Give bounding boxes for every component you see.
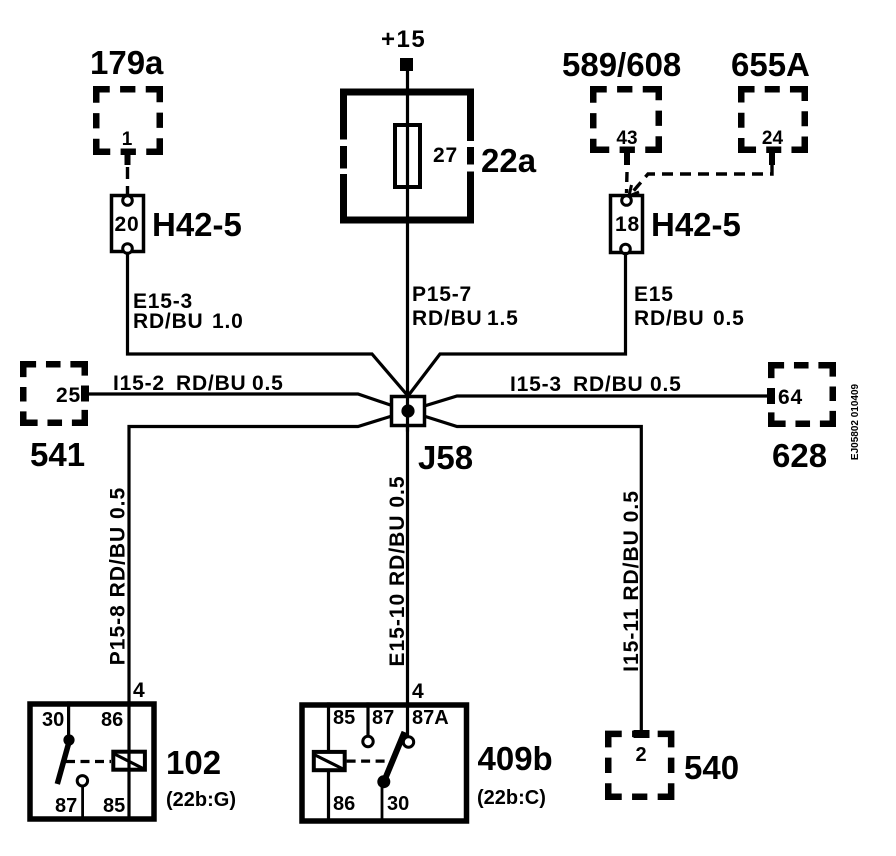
pin 64 tick [767, 388, 775, 404]
connector 628 dashed box [771, 365, 833, 424]
svg-text:87A: 87A [412, 707, 449, 729]
+15 terminal square [400, 58, 413, 71]
fuse 27 symbol [395, 125, 420, 187]
svg-text:P15-7: P15-7 [412, 283, 472, 306]
relay 102 coil wire 86-85 [127, 703, 130, 819]
svg-text:1: 1 [122, 129, 133, 150]
dashed wire 24 to H42-5 [630, 165, 772, 195]
pin 43 tick [624, 152, 630, 165]
relay 409b coil [314, 752, 345, 770]
svg-text:27: 27 [433, 144, 458, 167]
relay 102 coil [113, 752, 145, 770]
svg-text:541: 541 [30, 436, 85, 473]
fuse box 22a edge gaps [336, 140, 478, 175]
pin 25 tick [81, 386, 89, 402]
svg-text:628: 628 [772, 437, 827, 474]
svg-text:179a: 179a [90, 44, 164, 81]
connector 589/608 dashed box [593, 89, 659, 150]
junction J58 square [392, 397, 425, 426]
svg-text:1.0: 1.0 [212, 310, 244, 333]
svg-text:43: 43 [616, 128, 637, 149]
arrowhead at pin 18 [629, 185, 639, 196]
svg-text:0.5: 0.5 [713, 307, 745, 330]
relay 102 box [30, 704, 154, 819]
svg-text:409b: 409b [478, 740, 553, 777]
svg-text:RD/BU: RD/BU [573, 373, 644, 396]
svg-text:64: 64 [778, 386, 803, 409]
svg-text:(22b:C): (22b:C) [477, 787, 546, 809]
connector 541 dashed box [23, 364, 85, 423]
svg-text:RD/BU: RD/BU [412, 307, 483, 330]
svg-text:4: 4 [133, 679, 145, 702]
svg-text:540: 540 [684, 749, 739, 786]
svg-text:H42-5: H42-5 [651, 206, 741, 243]
pin 1 tick [125, 152, 131, 165]
pin 20 bottom circle [123, 244, 133, 254]
wire I15-11 [408, 411, 641, 734]
svg-text:87: 87 [55, 795, 77, 817]
svg-text:RD/BU: RD/BU [634, 307, 705, 330]
junction J58 vertical wire through square [406, 392, 409, 430]
wire P15-8 [129, 411, 408, 702]
pin 18 top circle [622, 196, 632, 206]
svg-text:30: 30 [42, 709, 64, 731]
pin 20 top circle [123, 196, 133, 206]
dashed wire 179a to H42-5 [126, 167, 129, 196]
svg-text:RD/BU: RD/BU [133, 310, 204, 333]
wire E15-10 [406, 411, 409, 737]
svg-text:E15-10 RD/BU 0.5: E15-10 RD/BU 0.5 [386, 475, 409, 666]
svg-text:87: 87 [372, 707, 394, 729]
wire E15-3 [128, 254, 409, 397]
svg-text:30: 30 [387, 793, 409, 815]
svg-text:20: 20 [115, 213, 140, 236]
wire E15 [408, 254, 626, 397]
relay 409b box [302, 705, 467, 821]
relay 102 pin 87 contact circle [77, 776, 87, 786]
svg-text:18: 18 [615, 213, 640, 236]
junction J58 dot [401, 404, 414, 417]
relay 409b coil link dashed [347, 759, 389, 762]
connector 655A dashed box [741, 89, 805, 150]
relay 102 switch pivot dot [63, 734, 74, 745]
connector H42-5 pin 18 box [611, 196, 643, 253]
svg-text:I15-2: I15-2 [113, 372, 165, 395]
svg-text:I15-3: I15-3 [510, 373, 562, 396]
svg-text:22a: 22a [481, 142, 537, 179]
relay 102 pin 87 stem [81, 786, 84, 819]
svg-text:P15-8 RD/BU 0.5: P15-8 RD/BU 0.5 [107, 487, 130, 665]
svg-text:25: 25 [56, 384, 81, 407]
svg-text:+15: +15 [381, 26, 426, 53]
relay 102 coil link dashed [66, 760, 111, 763]
connector H42-5 pin 20 box [112, 196, 144, 252]
svg-text:(22b:G): (22b:G) [166, 789, 236, 811]
svg-text:0.5: 0.5 [650, 373, 682, 396]
svg-text:86: 86 [333, 793, 355, 815]
relay 409b pin 87A contact circle [403, 737, 413, 747]
connector 179a dashed box [96, 89, 160, 152]
relay 409b pin 87 stem [366, 704, 369, 736]
wire P15-7 [406, 71, 409, 411]
svg-text:E15: E15 [634, 283, 674, 306]
relay 409b pin 87 contact circle [363, 736, 373, 746]
svg-text:RD/BU: RD/BU [176, 372, 247, 395]
pin 2 tick [634, 730, 650, 738]
relay 102 switch arm [57, 742, 69, 784]
relay 409b switch pivot dot [377, 775, 390, 788]
pin 24 tick [769, 152, 775, 165]
svg-text:I15-11 RD/BU 0.5: I15-11 RD/BU 0.5 [620, 490, 643, 672]
svg-text:24: 24 [762, 128, 784, 149]
fuse box 22a outline [344, 92, 471, 220]
svg-text:1.5: 1.5 [487, 307, 519, 330]
svg-text:85: 85 [333, 707, 355, 729]
svg-text:0.5: 0.5 [252, 372, 284, 395]
wire I15-3 [408, 396, 768, 411]
svg-text:589/608: 589/608 [562, 46, 681, 83]
relay 409b pin 30 stem [381, 786, 384, 821]
relay 409b switch arm [384, 732, 405, 782]
relay 102 switch stem [67, 703, 70, 735]
svg-text:655A: 655A [731, 46, 810, 83]
svg-text:4: 4 [412, 680, 424, 703]
svg-text:102: 102 [166, 744, 221, 781]
dashed wire 43 to H42-5 [625, 172, 629, 193]
svg-text:EJ05802 010409: EJ05802 010409 [850, 383, 861, 460]
relay 409b coil wire 85-86 [327, 704, 330, 821]
pin 18 bottom circle [621, 244, 631, 254]
svg-text:J58: J58 [418, 439, 473, 476]
connector 540 dashed box [608, 734, 671, 797]
svg-text:86: 86 [101, 709, 123, 731]
svg-text:2: 2 [635, 744, 646, 766]
svg-text:85: 85 [103, 795, 125, 817]
wire I15-2 [88, 394, 408, 411]
svg-text:H42-5: H42-5 [152, 206, 242, 243]
